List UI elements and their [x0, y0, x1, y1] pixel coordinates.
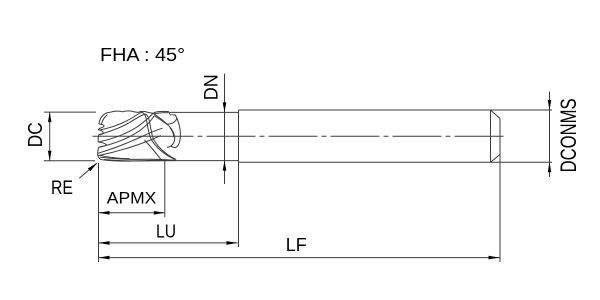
chamfer top diagonal — [491, 110, 501, 119]
svg-text:DC: DC — [25, 122, 47, 147]
cutter head left edge: lower edge and RE corner — [98, 147, 103, 160]
DC top extension line — [44, 111, 96, 113]
DN arrow up (bottom, outside) — [223, 161, 227, 171]
APMX left extension line (head start, shared with LU/LF) — [98, 163, 100, 262]
flute falling line F (lands on bottom edge) — [145, 140, 162, 160]
flute helix line C2 — [99, 116, 155, 148]
cutter head left edge: bump — [98, 130, 103, 142]
flute bottom stacked curve 1 — [100, 157, 176, 160]
shank end face (extends down as LF extension line) — [499, 119, 501, 263]
flute runout J hook — [167, 125, 175, 147]
flute C runout falling pair line 2 — [154, 116, 168, 126]
LU arrow right — [227, 241, 238, 245]
RE leader line — [79, 163, 97, 178]
shank top edge with DCONMS extension — [239, 109, 553, 111]
centerline — [93, 135, 508, 137]
svg-text:DCONMS: DCONMS — [556, 98, 581, 172]
svg-text:FHA : 45°: FHA : 45° — [100, 45, 185, 65]
head top edge (wavy with crest scallops) — [105, 111, 153, 114]
flute runout outer curve (right silhouette) — [171, 118, 180, 148]
dimension APMX line — [99, 212, 165, 214]
flute runout pennant outline (top right) — [153, 111, 177, 124]
flute helix line B2 — [99, 114, 176, 160]
dimension LF line — [99, 257, 500, 259]
DC bottom extension line — [44, 160, 95, 162]
flute helix line D (long sweep from corner) — [98, 128, 163, 153]
shank bottom edge with DCONMS extension — [239, 161, 553, 163]
LU arrow left — [99, 241, 110, 245]
DCONMS arrow up (bottom, outside) — [548, 162, 552, 172]
cutter head left edge: hook notch — [98, 124, 104, 130]
APMX arrow left — [99, 211, 110, 215]
dimension DC line — [49, 112, 51, 161]
APMX right extension line — [164, 161, 166, 217]
LF arrow right — [489, 256, 500, 260]
neck top edge — [170, 111, 239, 113]
flute helix line C1 (rises to pennant apex) — [98, 113, 153, 142]
dimension DCONMS line — [549, 92, 551, 178]
cutter head left edge: corner gash inner arc — [101, 115, 107, 125]
DC arrow down — [48, 151, 52, 161]
svg-text:DN: DN — [202, 74, 223, 100]
svg-text:LU: LU — [156, 222, 176, 242]
cutter head left edge: beak tooth — [98, 142, 106, 147]
dimension LU line — [99, 242, 238, 244]
svg-text:APMX: APMX — [107, 188, 157, 207]
DN arrow down (top, outside) — [223, 102, 227, 112]
J hook inner companion — [170, 128, 174, 138]
flute helix line E (lower sweep) — [98, 136, 161, 156]
DC arrow up — [48, 112, 52, 122]
chamfer bottom diagonal — [491, 155, 501, 163]
shank start vertical line (extends down as LU extension line) — [238, 110, 240, 247]
flute bottom stacked curve 3 (left) — [99, 155, 130, 159]
flute helix line B1 (claw arc, crest, steep runout to bottom) — [99, 112, 175, 159]
neck bottom edge — [180, 160, 239, 162]
flute bottom stacked curve 2 — [104, 160, 176, 161]
APMX arrow right — [154, 211, 165, 215]
LF arrow left — [99, 256, 110, 260]
cutter head left edge: top corner arc — [99, 114, 105, 124]
dimension DN line — [224, 74, 226, 184]
cutter head bottom edge — [102, 160, 179, 161]
RE leader arrowhead — [88, 163, 98, 172]
DCONMS arrow down (top, outside) — [548, 100, 552, 110]
shank chamfer vertical — [490, 110, 492, 162]
pennant inner top line — [154, 113, 168, 114]
svg-text:LF: LF — [286, 234, 307, 255]
flute C runout falling pair line 1 (pennant underside) — [153, 113, 167, 124]
svg-text:RE: RE — [51, 178, 73, 199]
